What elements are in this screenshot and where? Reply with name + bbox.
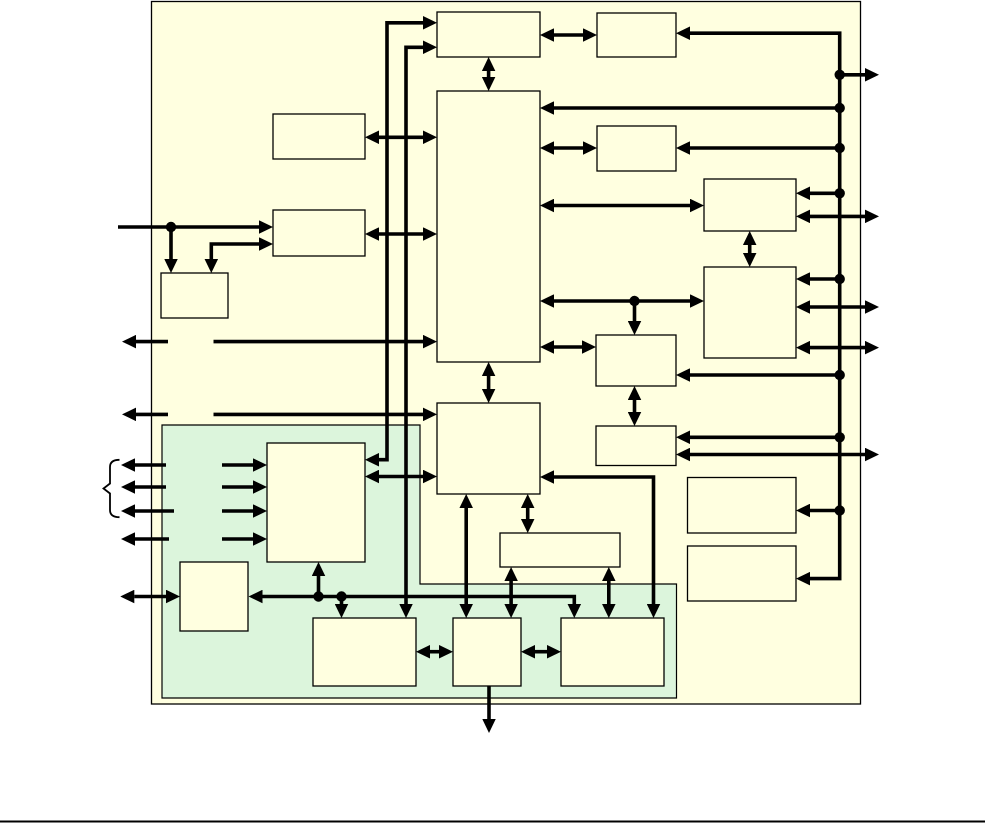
wire C-H vertical (487, 376, 491, 389)
wire port-in-right y465 (222, 463, 253, 467)
wire M-exit y596 (134, 595, 166, 599)
junction dot bus y437 (835, 432, 845, 442)
wire green bus M-to-P (263, 597, 575, 605)
wire T1-T2 (554, 33, 583, 37)
wire port-in-right y487 (222, 485, 253, 489)
curly brace port group (104, 460, 120, 517)
block P (bottom right) (561, 618, 664, 686)
wire greenbus-to-N (340, 597, 344, 605)
wire C-T3 y148 (554, 146, 583, 150)
wire C-F y301 (554, 299, 690, 303)
junction dot green bus 2 (336, 591, 346, 601)
wire U-F vertical (748, 245, 752, 253)
block K (lower right 2) (688, 546, 797, 601)
wire bus-to-U y193 (810, 192, 840, 196)
block Q (wide flat) (500, 533, 620, 567)
block U (upper far right) (704, 179, 796, 231)
wire T1-C vertical (487, 71, 491, 77)
wire line-to-H y414 (214, 413, 424, 417)
wire I-exit y454 (690, 453, 865, 457)
junction dot bus y193 (835, 188, 845, 198)
wire bus-to-T3 y148 (690, 146, 840, 150)
wire H-Q vertical (526, 508, 530, 519)
wire Q-P vertical (607, 581, 611, 604)
wire line-to-C y341 (214, 340, 424, 344)
wire F-exit y347 (810, 346, 865, 350)
block D1 (upper left) (273, 114, 365, 159)
block T2 (top right) (597, 13, 676, 57)
wire junction-to-E (169, 227, 173, 259)
junction dot bus y108 (835, 103, 845, 113)
wire H-O vertical (464, 508, 468, 604)
block M (green area left) (180, 562, 248, 631)
block N (bottom left) (313, 618, 416, 686)
block O (bottom middle) (453, 618, 521, 686)
wire port-in-left y487 (135, 485, 166, 489)
wire O-down output (487, 686, 491, 719)
wire F-exit y307 (810, 305, 865, 309)
wire input-to-D y227 (118, 225, 259, 229)
wire port-in-right y539 (222, 537, 253, 541)
junction dot C-F row (629, 296, 639, 306)
wire E-D corner (211, 244, 259, 259)
wire greenbus-to-L (317, 576, 321, 597)
junction dot bus y75 (835, 70, 845, 80)
wire C-G y347 (554, 345, 582, 349)
wire bus-to-F y279 (810, 277, 840, 281)
wire bus2 T1-to-N (406, 47, 423, 604)
block I (center right small) (596, 426, 676, 466)
junction dot bus y279 (835, 274, 845, 284)
junction dot bus y148 (835, 143, 845, 153)
block F (right middle big) (704, 267, 796, 358)
wire N-O y651 (430, 650, 439, 654)
junction dot bus y375 (835, 370, 845, 380)
wire port-in-right y511 (222, 509, 253, 513)
block G (center right) (596, 335, 676, 386)
wire bus-to-C y108 (554, 106, 840, 110)
block C (tall central) (437, 91, 540, 362)
wire D-C y234 (379, 232, 423, 236)
junction dot green bus 1 (313, 591, 323, 601)
outer chip boundary (152, 2, 861, 705)
wire bus-to-I y437 (690, 435, 840, 439)
block L (green area big) (267, 443, 365, 562)
block E (small left) (161, 273, 228, 318)
wire bus-to-J y510 (810, 509, 840, 513)
wire port-in-left y465 (135, 463, 166, 467)
block J (lower right) (688, 478, 797, 534)
wire D1-C y137 (379, 136, 423, 140)
wire G-I vertical (633, 400, 637, 412)
I/O ports green region (162, 425, 677, 698)
wire C-U y205 (554, 204, 690, 208)
wire exit-left y414 (136, 413, 168, 417)
bottom page rule (0, 821, 985, 823)
block T1 (top) (437, 12, 540, 57)
wire L-H y476.5 (379, 475, 423, 479)
wire H-corner-P (554, 477, 654, 604)
wire right bus spine T2-to-K (690, 33, 840, 578)
wire bus1 L-to-T1 (379, 23, 423, 460)
block D (left middle) (273, 210, 365, 256)
wire port-in-left y539 (135, 537, 169, 541)
junction dot bus y510 (835, 505, 845, 515)
wire O-P y651 (535, 650, 547, 654)
wire junction-to-G (633, 301, 637, 321)
wire U-exit y216 (810, 215, 865, 219)
wire port-in-left y511 (135, 509, 174, 513)
wire exit right y75 (840, 73, 865, 77)
wire exit-left y341 (136, 340, 168, 344)
junction dot input y227 (166, 222, 176, 232)
wire Q-O vertical (509, 581, 513, 604)
wire bus-to-G y375 (690, 373, 840, 377)
block H (central lower) (437, 403, 540, 494)
block T3 (right of C) (597, 126, 676, 171)
